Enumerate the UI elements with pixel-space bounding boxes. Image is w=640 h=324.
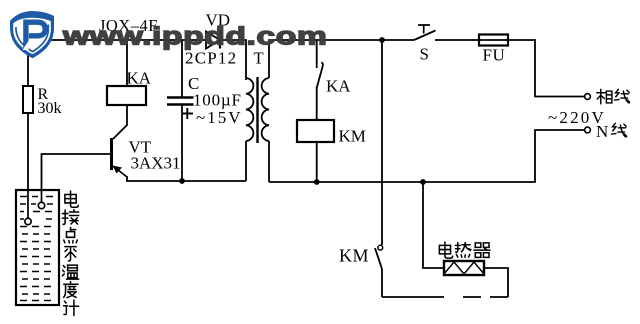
logo shield	[10, 11, 54, 58]
diode VD1 cathode bar	[219, 32, 221, 49]
relay coil KA body	[107, 86, 146, 105]
wire KA coil to transistor collector	[113, 105, 127, 139]
wire heater branch vertical	[423, 182, 444, 268]
wire KM contact bottom lead	[381, 269, 383, 297]
svg-text:KM: KM	[339, 246, 369, 266]
wire fuse to phase terminal	[508, 40, 585, 97]
transformer T1 secondary winding	[262, 78, 269, 141]
contact KA blade	[317, 63, 323, 88]
wire dashed return line	[382, 296, 508, 298]
wire heater right lead	[484, 268, 508, 297]
wire KA contact to KM coil	[316, 87, 318, 120]
fuse FU element line	[479, 39, 508, 41]
transistor Q1 base bar	[110, 138, 113, 170]
svg-text:2CP12: 2CP12	[185, 49, 237, 68]
wire base from thermometer right contact	[42, 154, 111, 203]
capacitor C1 plates	[167, 98, 194, 105]
wire switch to fuse	[435, 39, 479, 41]
thermometer right contact	[38, 202, 44, 208]
label 电热器 heater	[439, 242, 490, 258]
wire emitter down and bottom-left rail	[127, 176, 246, 181]
wire top rail right section	[269, 40, 414, 78]
svg-text:www.ippdd.com: www.ippdd.com	[62, 23, 328, 51]
diode VD1 triangle	[206, 32, 220, 49]
heater body	[444, 261, 484, 275]
resistor R1 body	[23, 86, 33, 113]
svg-text:KM: KM	[339, 127, 366, 146]
terminal N line circle	[585, 127, 591, 133]
label 相线 phase line	[597, 89, 630, 104]
node junction emitter-capacitor	[179, 178, 185, 184]
wire N terminal to bottom rail	[269, 130, 585, 182]
svg-text:100µF: 100µF	[193, 91, 242, 110]
node junction heater branch	[420, 179, 426, 185]
wire KA coil branch	[126, 40, 128, 86]
node junction top rail	[379, 37, 385, 43]
wire resistor to thermometer left contact	[27, 113, 29, 218]
wire top rail diode-to-transformer	[220, 40, 246, 80]
svg-text:FU: FU	[483, 46, 506, 65]
heater zigzag element	[444, 262, 484, 274]
svg-text:~15V: ~15V	[196, 108, 242, 127]
label 电接点汞温度计 vertical	[62, 191, 78, 315]
wire top junction down to KM contact	[381, 40, 383, 245]
transformer T1 core	[256, 77, 258, 143]
thermometer body	[16, 190, 59, 305]
fuse FU body	[479, 35, 508, 46]
svg-text:KA: KA	[127, 69, 152, 88]
svg-text:S: S	[420, 45, 429, 64]
contactor coil KM body	[297, 120, 334, 142]
switch S static contact mark	[418, 25, 430, 34]
svg-text:KA: KA	[326, 77, 351, 96]
wire top rail left section	[28, 39, 206, 41]
capacitor C1 polarity plus	[182, 108, 194, 119]
transformer T1 primary winding	[246, 78, 253, 141]
switch S blade	[414, 31, 436, 41]
contact KM blade	[375, 248, 382, 269]
contact KM fixed circle	[378, 245, 383, 250]
wire capacitor bottom lead	[181, 105, 183, 181]
thermometer lead wires inside	[28, 190, 42, 218]
svg-text:T: T	[254, 49, 264, 68]
svg-text:30k: 30k	[38, 100, 62, 117]
transistor Q1 emitter arrow	[113, 166, 123, 174]
svg-text:3AX31: 3AX31	[131, 154, 181, 173]
node junction KM coil	[314, 179, 320, 185]
wire transformer secondary bottom lead	[268, 141, 270, 182]
thermometer mercury dashed levels	[20, 197, 55, 301]
wire KM coil to bottom rail	[316, 142, 318, 182]
wire capacitor top lead	[181, 40, 183, 97]
wire KA contact branch top	[316, 40, 318, 68]
svg-text:N: N	[596, 122, 608, 141]
wire left vertical from rail to resistor	[27, 40, 29, 86]
thermometer left contact	[25, 218, 31, 224]
terminal phase line circle	[585, 94, 591, 100]
transistor Q1 emitter	[113, 166, 127, 177]
wire transformer primary bottom lead	[245, 141, 247, 181]
